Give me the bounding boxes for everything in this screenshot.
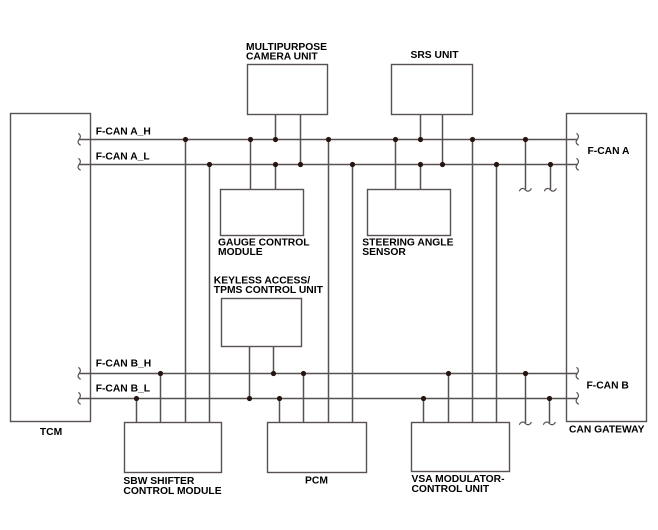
wire KEYLESS B_L pin <box>249 347 251 399</box>
wire PCM B_L pin <box>279 399 281 423</box>
junction STEERING/A_H <box>393 137 398 142</box>
junction stub/A_H <box>523 137 528 142</box>
module box MULTIPURPOSE CAMERA UNIT <box>248 65 328 115</box>
wire PCM A_L pin <box>352 165 354 423</box>
wire SBW A_H pin <box>185 140 187 423</box>
svg-text:CONTROL UNIT: CONTROL UNIT <box>412 484 490 495</box>
wire SBW B_H pin <box>160 374 162 423</box>
junction PCM/A_H <box>326 137 331 142</box>
junction SBW/A_H <box>183 137 188 142</box>
squiggle F-CAN A_H at TCM <box>78 133 81 145</box>
tilde B_H stub end <box>519 422 531 425</box>
svg-text:TPMS CONTROL UNIT: TPMS CONTROL UNIT <box>214 285 324 296</box>
module box KEYLESS ACCESS/TPMS CONTROL UNIT <box>222 299 302 347</box>
wire SRS A_H pin <box>420 115 422 140</box>
wire CAMERA A_H pin <box>275 115 277 140</box>
wire SBW B_L pin <box>136 399 138 423</box>
module box TCM <box>11 114 91 422</box>
wire A_H continuation stub <box>525 140 527 190</box>
wire F-CAN A_L bus <box>79 164 577 166</box>
wire KEYLESS B_H pin <box>273 347 275 374</box>
wire CAMERA A_L pin <box>300 115 302 165</box>
tilde A_H stub end <box>519 188 531 191</box>
junction PCM/B_H <box>301 371 306 376</box>
wire F-CAN B_L bus <box>79 398 577 400</box>
squiggle F-CAN A_L at CAN GATEWAY <box>576 158 579 170</box>
svg-text:F-CAN A: F-CAN A <box>588 146 631 157</box>
junction VSA/B_L <box>421 396 426 401</box>
squiggle F-CAN B_H at TCM <box>78 367 81 379</box>
svg-text:CAMERA UNIT: CAMERA UNIT <box>246 52 318 63</box>
svg-text:CAN GATEWAY: CAN GATEWAY <box>569 425 645 436</box>
module box SBW SHIFTER CONTROL MODULE <box>125 423 222 473</box>
svg-text:F-CAN B_L: F-CAN B_L <box>96 383 150 394</box>
squiggle F-CAN A_L at TCM <box>78 158 81 170</box>
svg-text:CONTROL MODULE: CONTROL MODULE <box>123 486 221 497</box>
module box SRS UNIT <box>392 65 473 115</box>
wire STEERING A_L pin <box>420 165 422 190</box>
junction CAMERA/A_H <box>273 137 278 142</box>
svg-text:F-CAN B: F-CAN B <box>587 380 629 391</box>
wire B_H continuation stub <box>525 374 527 423</box>
junction SRS/A_L <box>440 162 445 167</box>
wire A_L continuation stub <box>550 165 552 190</box>
svg-text:F-CAN B_H: F-CAN B_H <box>96 358 152 369</box>
wire GAUGE A_H pin <box>250 140 252 190</box>
junction STEERING/A_L <box>418 162 423 167</box>
junction SRS/A_H <box>418 137 423 142</box>
junction stub/B_H <box>523 371 528 376</box>
squiggle F-CAN A_H at CAN GATEWAY <box>576 133 579 145</box>
wire PCM B_H pin <box>303 374 305 423</box>
junction KEYLESS/B_L <box>247 396 252 401</box>
junction CAMERA/A_L <box>298 162 303 167</box>
junction KEYLESS/B_H <box>271 371 276 376</box>
squiggle F-CAN B_L at CAN GATEWAY <box>576 392 579 404</box>
wire VSA B_L pin <box>423 399 425 423</box>
junction PCM/B_L <box>277 396 282 401</box>
wire F-CAN B_H bus <box>79 373 577 375</box>
wire F-CAN A_H bus <box>79 139 577 141</box>
module box GAUGE CONTROL MODULE <box>221 190 304 236</box>
wire B_L continuation stub <box>549 399 551 423</box>
wire GAUGE A_L pin <box>275 165 277 190</box>
squiggle F-CAN B_H at CAN GATEWAY <box>576 367 579 379</box>
junction SBW/B_L <box>134 396 139 401</box>
module box PCM <box>268 423 367 473</box>
wire PCM A_H pin <box>328 140 330 423</box>
module box VSA MODULATOR-CONTROL UNIT <box>412 423 510 472</box>
svg-text:F-CAN A_H: F-CAN A_H <box>96 126 151 137</box>
module box STEERING ANGLE SENSOR <box>368 190 451 236</box>
svg-text:F-CAN A_L: F-CAN A_L <box>96 151 150 162</box>
tilde A_L stub end <box>544 188 556 191</box>
tilde B_L stub end <box>543 422 555 425</box>
svg-text:PCM: PCM <box>305 475 328 486</box>
svg-text:TCM: TCM <box>40 427 62 438</box>
junction PCM/A_L <box>350 162 355 167</box>
junction VSA/B_H <box>446 371 451 376</box>
wire VSA A_L pin <box>496 165 498 423</box>
junction SBW/B_H <box>158 371 163 376</box>
wire SRS A_L pin <box>442 115 444 165</box>
wire VSA A_H pin <box>472 140 474 423</box>
junction GAUGE/A_H <box>248 137 253 142</box>
svg-text:SRS UNIT: SRS UNIT <box>411 50 460 61</box>
wire SBW A_L pin <box>209 165 211 423</box>
junction stub/A_L <box>548 162 553 167</box>
svg-text:SENSOR: SENSOR <box>362 247 406 258</box>
wire VSA B_H pin <box>448 374 450 423</box>
module box CAN GATEWAY <box>567 114 647 422</box>
junction SBW/A_L <box>207 162 212 167</box>
junction stub/B_L <box>547 396 552 401</box>
junction GAUGE/A_L <box>273 162 278 167</box>
squiggle F-CAN B_L at TCM <box>78 392 81 404</box>
junction VSA/A_H <box>470 137 475 142</box>
wire STEERING A_H pin <box>395 140 397 190</box>
svg-text:MODULE: MODULE <box>218 247 263 258</box>
junction VSA/A_L <box>494 162 499 167</box>
